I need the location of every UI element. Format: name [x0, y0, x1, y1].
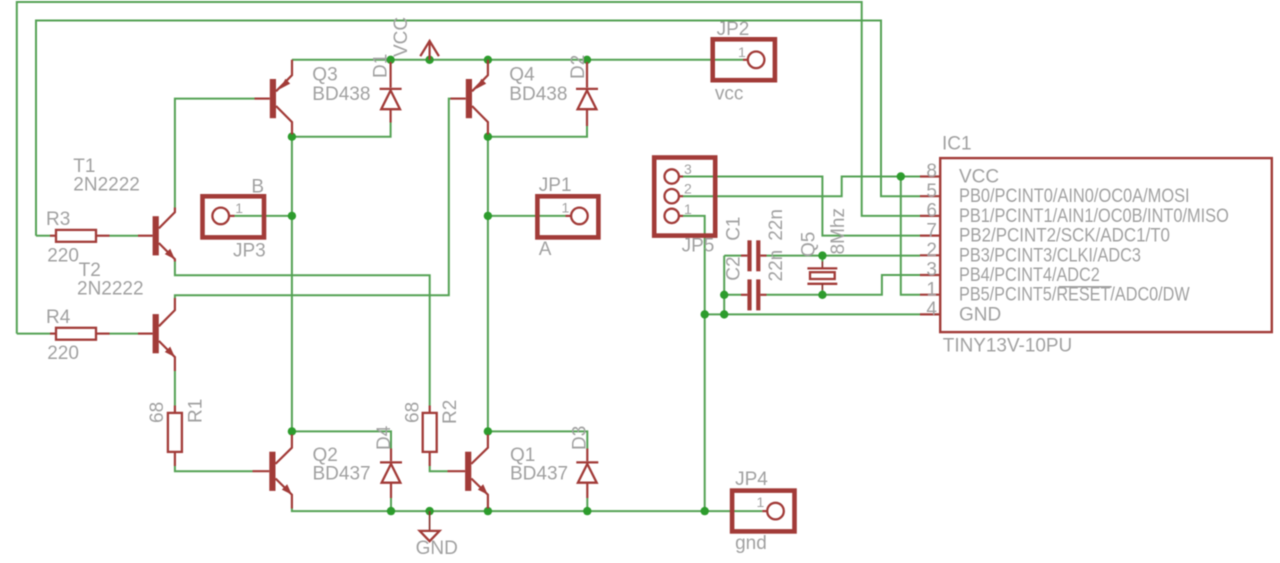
svg-text:PB1/PCINT1/AIN1/OC0B/INT0/MISO: PB1/PCINT1/AIN1/OC0B/INT0/MISO — [959, 206, 1229, 227]
svg-text:C1: C1 — [724, 217, 745, 241]
svg-text:JP2: JP2 — [717, 19, 750, 40]
svg-text:TINY13V-10PU: TINY13V-10PU — [943, 336, 1072, 357]
svg-text:D4: D4 — [374, 425, 395, 450]
svg-text:1: 1 — [757, 494, 765, 510]
junction JP3 node B — [288, 212, 296, 220]
wire net PB0/MOSI to R3: inner loop — [36, 21, 920, 236]
connector JP2 — [713, 39, 775, 80]
svg-text:R2: R2 — [440, 400, 461, 424]
wire Q3 collector to D1 — [292, 123, 391, 137]
connector JP4 — [732, 491, 794, 532]
wire VCC junction to IC pin1 RESET — [901, 177, 920, 295]
svg-text:22n: 22n — [766, 209, 787, 241]
junction crystal bottom PB4 — [818, 291, 826, 299]
wire Q4 collector to D2 — [488, 126, 587, 137]
IC1 pin 5 stub — [920, 195, 940, 197]
svg-text:2: 2 — [926, 240, 937, 261]
diode D2 — [576, 62, 598, 126]
svg-text:A: A — [539, 239, 552, 260]
wire JP1 pin to node A — [488, 215, 566, 217]
wire net PB1/MISO to R4: left outer loop — [17, 2, 920, 334]
junction Q2 collector node B bottom — [288, 427, 296, 435]
wire JP5 pin2 to IC pin8 VCC — [683, 177, 920, 197]
svg-text:R1: R1 — [186, 399, 207, 423]
transistor Q2 BD437 — [253, 435, 292, 509]
svg-text:JP4: JP4 — [735, 469, 768, 490]
svg-text:Q5: Q5 — [799, 232, 820, 257]
IC1 pin 2 stub — [920, 254, 940, 256]
svg-text:Q4: Q4 — [509, 65, 535, 86]
svg-text:1: 1 — [738, 44, 746, 60]
wire D3 bottom to GND rail — [586, 498, 588, 511]
svg-text:BD437: BD437 — [313, 464, 371, 485]
svg-text:2N2222: 2N2222 — [73, 175, 140, 196]
svg-text:8: 8 — [926, 161, 937, 182]
crystal Q5 8Mhz — [807, 262, 837, 291]
wire R1 to Q2 base — [175, 466, 253, 471]
svg-text:BD438: BD438 — [312, 84, 370, 105]
junction GND symbol — [425, 507, 433, 515]
connector JP5 — [654, 158, 715, 236]
wire JP5 pin3 to IC pin7 PB2 — [683, 177, 920, 236]
svg-text:22n: 22n — [766, 250, 787, 282]
junction crystal top PB3 — [818, 251, 826, 259]
wire C1 C2 ground branch — [723, 256, 725, 315]
svg-text:Q3: Q3 — [312, 65, 337, 86]
IC1 pin 8 stub — [920, 175, 940, 177]
svg-text:7: 7 — [926, 220, 937, 241]
transistor T1 2N2222 — [138, 208, 175, 262]
wire JP3 pin to node B — [235, 215, 292, 217]
svg-text:4: 4 — [926, 299, 937, 320]
wire GND rail — [292, 509, 762, 512]
svg-text:2N2222: 2N2222 — [77, 278, 144, 299]
svg-text:R3: R3 — [46, 209, 70, 230]
wire C2 right to IC pin3 PB4 — [767, 275, 921, 295]
svg-text:BD438: BD438 — [509, 84, 567, 105]
svg-text:IC1: IC1 — [942, 134, 972, 155]
wire GND row to IC pin4 — [705, 313, 920, 315]
svg-text:gnd: gnd — [735, 533, 767, 554]
svg-text:1: 1 — [235, 200, 243, 216]
diode D3 — [576, 449, 598, 499]
IC IC1 TINY13V-10PU box — [940, 158, 1272, 332]
wire C2 left lead — [724, 294, 741, 296]
wire JP5 pin1 to GND vertical — [683, 216, 705, 511]
RESET overline — [1059, 286, 1112, 288]
svg-text:vcc: vcc — [715, 84, 744, 105]
wire Q2 collector red-green joint — [291, 431, 293, 434]
wire T1 collector to Q3 base — [175, 99, 255, 208]
VCC supply symbol — [420, 41, 439, 60]
wire T1 emitter to R2 — [175, 262, 430, 406]
svg-text:5: 5 — [926, 181, 937, 202]
svg-text:JP5: JP5 — [682, 235, 715, 256]
wire C1 right to IC pin2 PB3 — [767, 255, 921, 257]
wire node A vertical (Q4 collector to Q1 collector) — [487, 137, 489, 432]
wire Q1 emitter to GND rail — [487, 509, 489, 512]
junction Q1 collector node A bottom — [484, 427, 492, 435]
svg-text:GND: GND — [416, 538, 458, 559]
svg-text:VCC: VCC — [391, 17, 412, 57]
junction D2/VCC rail — [583, 56, 591, 64]
junction D1/VCC rail — [386, 56, 394, 64]
wire Q2 collector to D4 — [292, 431, 391, 448]
svg-text:220: 220 — [47, 246, 79, 267]
wire R2 to Q1 base — [430, 466, 448, 471]
resistor R4 — [17, 328, 138, 340]
svg-text:C2: C2 — [724, 256, 745, 280]
IC1 pin 1 stub — [920, 294, 940, 296]
wire crystal bottom stub — [821, 290, 823, 295]
svg-text:1: 1 — [684, 201, 692, 217]
wire T2 emitter to R1 — [174, 371, 176, 406]
svg-text:VCC: VCC — [959, 167, 999, 188]
svg-text:3: 3 — [684, 161, 692, 177]
transistor T2 2N2222 — [138, 298, 175, 371]
svg-text:1: 1 — [562, 199, 570, 215]
junction Q3 collector node B — [288, 133, 296, 141]
transistor Q4 BD438 — [451, 60, 488, 135]
junction JP5 gnd vertical — [701, 310, 709, 318]
junction D4/GND rail — [387, 507, 395, 515]
svg-text:PB5/PCINT5/RESET/ADC0/DW: PB5/PCINT5/RESET/ADC0/DW — [959, 285, 1190, 306]
transistor Q1 BD437 — [448, 435, 488, 509]
svg-text:220: 220 — [47, 343, 79, 364]
svg-text:PB4/PCINT4/ADC2: PB4/PCINT4/ADC2 — [959, 265, 1100, 286]
junction Q4 emitter — [484, 56, 492, 64]
junction D3/GND rail — [583, 507, 591, 515]
ground symbol GND — [420, 511, 440, 541]
diode D1 — [380, 62, 402, 123]
svg-text:JP1: JP1 — [539, 175, 572, 196]
connector JP1 — [537, 196, 598, 237]
svg-text:2: 2 — [684, 181, 692, 197]
junction JP1 node A — [484, 212, 492, 220]
IC1 pin 4 stub — [920, 313, 940, 315]
IC1 pin 6 stub — [920, 215, 940, 217]
svg-text:PB3/PCINT3/CLKI/ADC3: PB3/PCINT3/CLKI/ADC3 — [959, 245, 1141, 266]
junction Q1 emitter GND rail — [484, 507, 492, 515]
svg-text:8Mhz: 8Mhz — [828, 208, 849, 254]
diode D4 — [380, 449, 402, 499]
wire T2 collector to Q4 base — [175, 99, 451, 299]
wire VCC rail — [292, 59, 743, 61]
svg-text:6: 6 — [926, 201, 937, 222]
svg-text:D1: D1 — [371, 54, 392, 78]
svg-text:1: 1 — [926, 279, 937, 300]
resistor R2 — [423, 406, 437, 467]
resistor R3 — [36, 230, 138, 242]
junction C1 gnd branch bottom — [720, 310, 728, 318]
capacitor C2 — [741, 279, 767, 310]
svg-text:D2: D2 — [568, 55, 589, 79]
IC1 pin 3 stub — [920, 274, 940, 276]
svg-text:PB2/PCINT2/SCK/ADC1/T0: PB2/PCINT2/SCK/ADC1/T0 — [959, 226, 1170, 247]
svg-text:BD437: BD437 — [510, 464, 568, 485]
svg-text:D3: D3 — [570, 426, 591, 450]
connector JP3 — [203, 196, 265, 237]
junction VCC pin8 — [897, 172, 905, 180]
wire D4 bottom to GND rail — [390, 498, 392, 511]
IC1 pin 7 stub — [920, 235, 940, 237]
svg-text:GND: GND — [959, 304, 1001, 325]
resistor R1 — [168, 406, 182, 467]
svg-text:68: 68 — [147, 402, 168, 423]
junction JP4/GND rail — [701, 507, 709, 515]
junction C2 gnd branch — [720, 291, 728, 299]
capacitor C1 — [741, 240, 767, 271]
wire C1 left lead — [724, 255, 741, 257]
junction Q4 collector node A — [484, 133, 492, 141]
svg-text:JP3: JP3 — [233, 240, 266, 261]
wire node B vertical (Q3 collector to Q2 collector) — [291, 137, 293, 432]
svg-text:68: 68 — [403, 402, 424, 423]
junction VCC symbol — [425, 56, 433, 64]
svg-text:PB0/PCINT0/AIN0/OC0A/MOSI: PB0/PCINT0/AIN0/OC0A/MOSI — [959, 186, 1190, 207]
svg-text:B: B — [251, 177, 264, 198]
wire Q1 collector to D3 — [488, 431, 587, 448]
svg-text:R4: R4 — [46, 307, 71, 328]
svg-text:3: 3 — [926, 260, 937, 281]
wire crystal top stub — [821, 256, 823, 262]
transistor Q3 BD438 — [255, 60, 293, 135]
